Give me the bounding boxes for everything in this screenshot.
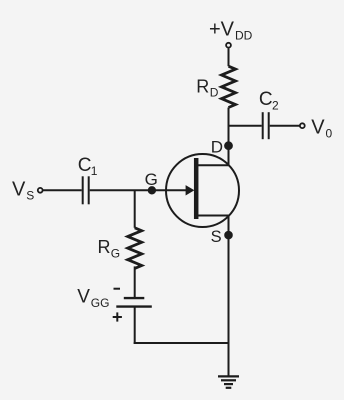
svg-text:R: R bbox=[196, 77, 209, 97]
wire RD to drain bbox=[228, 108, 230, 166]
resistor RD bbox=[222, 66, 236, 107]
capacitor C2 bbox=[263, 112, 269, 139]
battery minus sign bbox=[114, 288, 121, 290]
capacitor C1 bbox=[83, 176, 89, 204]
label S bbox=[211, 228, 222, 246]
svg-text:R: R bbox=[98, 237, 111, 257]
wire source to ground bbox=[228, 216, 230, 377]
terminal VS bbox=[38, 188, 43, 193]
svg-text:C: C bbox=[259, 89, 273, 110]
terminal V0 bbox=[300, 123, 305, 128]
label C1 bbox=[78, 155, 98, 178]
ground bbox=[218, 376, 239, 387]
svg-text:D: D bbox=[211, 138, 223, 157]
transistor Q1 JFET body bbox=[166, 154, 239, 227]
svg-text:S: S bbox=[26, 188, 34, 202]
terminal +VDD bbox=[226, 43, 231, 48]
svg-text:V: V bbox=[12, 178, 26, 200]
wire bottom horizontal bbox=[134, 342, 229, 344]
label V0 bbox=[311, 117, 332, 141]
wire RG to battery bbox=[134, 266, 136, 298]
battery plus sign bbox=[113, 312, 122, 321]
svg-text:D: D bbox=[210, 86, 219, 100]
svg-text:0: 0 bbox=[326, 127, 333, 141]
label C2 bbox=[259, 89, 279, 112]
wire C1 to gate bbox=[90, 189, 187, 191]
node S bbox=[225, 232, 232, 239]
label D bbox=[211, 138, 223, 157]
svg-text:+V: +V bbox=[209, 19, 235, 41]
label +VDD bbox=[209, 19, 253, 43]
transistor Q1 channel bar bbox=[194, 158, 199, 219]
svg-text:S: S bbox=[211, 228, 222, 246]
wire drain node to C2 bbox=[229, 125, 262, 127]
svg-text:2: 2 bbox=[272, 98, 279, 112]
wire C2 to V0 bbox=[270, 125, 300, 127]
svg-text:GG: GG bbox=[91, 296, 110, 310]
label RG bbox=[98, 237, 121, 260]
label VS bbox=[12, 178, 34, 202]
node D bbox=[225, 142, 232, 149]
wire battery to bottom bbox=[134, 307, 136, 344]
svg-text:G: G bbox=[111, 246, 120, 260]
wire VDD to RD bbox=[228, 48, 230, 66]
label RD bbox=[196, 77, 219, 100]
label VGG bbox=[77, 287, 109, 311]
svg-text:V: V bbox=[77, 287, 90, 308]
wire gate junction to RG bbox=[134, 190, 136, 228]
node G bbox=[149, 187, 155, 193]
transistor Q1 source lead bbox=[197, 215, 229, 217]
label G bbox=[145, 170, 158, 189]
battery VGG bbox=[116, 298, 152, 307]
resistor RG bbox=[128, 228, 142, 269]
svg-text:G: G bbox=[145, 170, 158, 189]
svg-text:C: C bbox=[78, 155, 92, 176]
transistor Q1 drain lead bbox=[197, 164, 229, 166]
svg-text:1: 1 bbox=[91, 164, 98, 178]
svg-text:DD: DD bbox=[235, 28, 253, 42]
transistor Q1 gate arrow bbox=[186, 185, 195, 195]
wire VS to C1 bbox=[43, 189, 82, 191]
svg-text:V: V bbox=[311, 117, 325, 139]
